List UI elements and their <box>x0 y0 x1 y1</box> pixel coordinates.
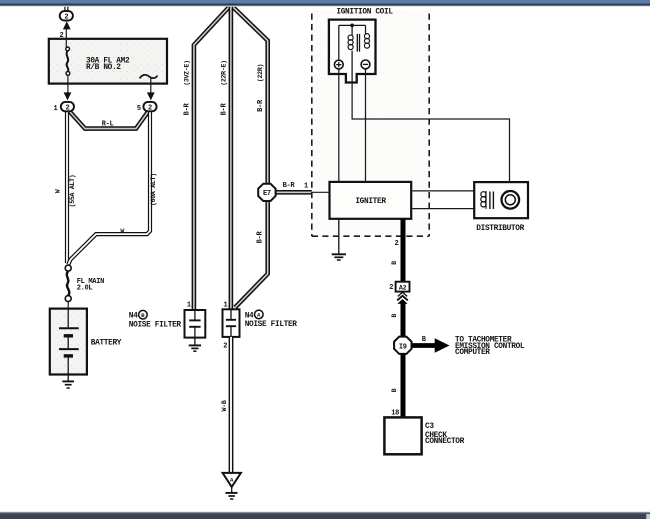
wire B-R (22R) bus upper segment to E7 <box>231 5 268 184</box>
svg-text:(3VZ-E): (3VZ-E) <box>184 60 191 86</box>
wire FL MAIN to battery <box>67 302 69 309</box>
wire top-left drop to connector 2 <box>64 3 68 12</box>
wire into fuse box <box>65 27 67 47</box>
wire igniter pin 1 lead <box>312 191 330 193</box>
battery <box>50 309 87 375</box>
svg-text:R/B NO.2: R/B NO.2 <box>86 64 121 72</box>
check connector C3 <box>384 417 421 454</box>
svg-text:(60A ALT): (60A ALT) <box>150 173 157 206</box>
svg-text:B: B <box>141 312 145 319</box>
svg-text:A2: A2 <box>399 284 407 291</box>
svg-text:NOISE FILTER: NOISE FILTER <box>245 321 298 329</box>
wire W left (55A ALT) <box>65 109 69 263</box>
svg-text:C3: C3 <box>425 423 434 431</box>
svg-text:1: 1 <box>187 302 191 310</box>
label N4 B <box>129 310 182 329</box>
ground arrow A <box>223 473 241 487</box>
core bars distributor <box>490 192 494 210</box>
solid arrow up <box>397 299 407 304</box>
rotor double circle <box>502 191 520 209</box>
fuse box right squiggle <box>140 75 158 79</box>
fusible link 30A symbol <box>66 47 70 75</box>
svg-text:B: B <box>391 313 398 317</box>
connector E7 <box>258 184 275 201</box>
svg-text:1: 1 <box>304 183 308 191</box>
wire B-R E7 to dashed boundary <box>276 190 312 195</box>
ground below arrow <box>226 487 238 499</box>
wire W-B <box>229 337 234 472</box>
wire B-R segment E7 to noise filter N4A <box>235 201 268 308</box>
connector oval 2 right <box>143 102 156 113</box>
svg-text:N4: N4 <box>245 312 254 320</box>
svg-text:B: B <box>422 336 427 344</box>
terminal - <box>361 60 370 69</box>
svg-text:B-R: B-R <box>283 182 296 190</box>
junction dot <box>350 24 354 28</box>
svg-text:(22R-E): (22R-E) <box>221 60 228 86</box>
dashed boundary ignition system <box>312 14 429 237</box>
wire B-R (22R-E) bus <box>229 3 234 310</box>
noise filter N4 B box <box>185 310 206 338</box>
svg-text:(55A ALT): (55A ALT) <box>69 175 76 208</box>
svg-text:B-R: B-R <box>184 103 192 116</box>
connector oval 2 left <box>61 102 74 113</box>
wire B-R (3VZ-E) bus <box>194 5 231 310</box>
wire coil + to igniter <box>338 69 340 182</box>
svg-text:1: 1 <box>53 105 57 113</box>
corner grip <box>646 514 650 519</box>
svg-text:2: 2 <box>223 343 227 351</box>
wire igniter pin2 thick <box>401 219 406 282</box>
wire fuse box right drop <box>150 77 152 94</box>
arrow down to connector 5 <box>147 92 155 100</box>
wire W right (60A ALT) <box>68 109 150 265</box>
svg-text:W: W <box>120 228 124 235</box>
coil internal wires <box>339 25 366 82</box>
svg-text:2: 2 <box>59 32 63 40</box>
arrow to tachometer <box>412 343 437 348</box>
ground battery <box>62 375 74 389</box>
wire igniter to distributor upper <box>411 190 486 192</box>
ground igniter <box>332 219 346 260</box>
top bar <box>0 0 650 3</box>
wire coil - to igniter <box>365 69 367 182</box>
arrow up into top connector <box>63 21 71 29</box>
svg-text:1: 1 <box>223 301 227 309</box>
svg-text:DISTRIBUTOR: DISTRIBUTOR <box>476 225 524 233</box>
pickup coil <box>485 191 487 209</box>
svg-text:A: A <box>257 312 261 319</box>
svg-text:W-B: W-B <box>221 400 228 411</box>
label B-R (3VZ-E) <box>184 60 192 115</box>
wire R-L bridge <box>67 109 150 129</box>
label N4 A <box>245 310 298 329</box>
bottom bar <box>0 511 650 513</box>
core bars <box>357 34 359 52</box>
wire coil secondary to distributor <box>352 83 509 192</box>
svg-text:B-R: B-R <box>221 103 229 116</box>
wire I9 to check connector thick <box>401 354 406 418</box>
ground N4B <box>189 338 201 352</box>
svg-text:R-L: R-L <box>102 120 114 128</box>
svg-text:2.0L: 2.0L <box>77 285 93 293</box>
noise filter N4 A box <box>223 309 240 337</box>
wire A2 to I9 thick <box>401 303 406 338</box>
svg-text:2: 2 <box>148 104 152 112</box>
svg-text:I9: I9 <box>399 344 407 352</box>
connector oval 2 top <box>60 11 73 22</box>
svg-text:2: 2 <box>394 240 398 248</box>
fuse box 30A FL AM2 R/B NO.2 <box>49 39 167 84</box>
distributor box <box>474 182 528 218</box>
svg-text:2: 2 <box>389 284 393 292</box>
ignition coil <box>329 20 376 83</box>
chevron junction arrows <box>397 292 408 300</box>
fusible link FL MAIN <box>65 265 71 302</box>
svg-text:(22R): (22R) <box>257 64 264 82</box>
svg-text:BATTERY: BATTERY <box>91 339 122 347</box>
svg-text:2: 2 <box>65 104 69 112</box>
svg-text:5: 5 <box>137 105 141 113</box>
arrow down to connector 1 <box>64 92 72 100</box>
connector I9 <box>394 337 411 354</box>
label B-R (22R) <box>257 64 265 112</box>
connector A2 <box>396 282 410 292</box>
terminal + <box>334 60 343 69</box>
svg-text:B: B <box>391 261 398 265</box>
svg-text:W: W <box>55 189 62 193</box>
svg-text:N4: N4 <box>129 313 138 321</box>
svg-text:NOISE FILTER: NOISE FILTER <box>129 321 182 329</box>
svg-text:IGNITER: IGNITER <box>355 198 386 206</box>
svg-text:COMPUTER: COMPUTER <box>455 349 490 357</box>
label B-R (22R-E) <box>221 60 229 115</box>
primary winding <box>348 34 370 50</box>
svg-text:CONNECTOR: CONNECTOR <box>425 438 465 446</box>
svg-text:B: B <box>391 388 398 392</box>
wire igniter to distributor lower <box>411 208 486 210</box>
dashed region stipple background <box>312 10 429 236</box>
svg-text:2: 2 <box>64 14 68 22</box>
svg-text:IGNITION COIL: IGNITION COIL <box>336 9 393 17</box>
igniter box <box>330 182 412 219</box>
wire fuse box left drop <box>67 75 69 94</box>
svg-text:B-R: B-R <box>256 231 264 244</box>
svg-text:E7: E7 <box>263 190 271 198</box>
svg-text:B-R: B-R <box>257 99 265 112</box>
